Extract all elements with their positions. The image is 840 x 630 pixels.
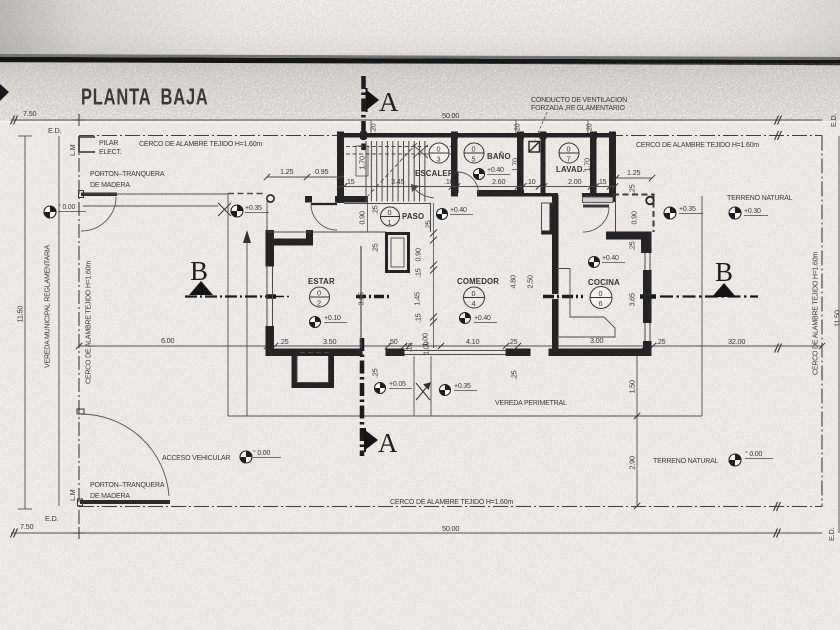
svg-text:1.70: 1.70 [511, 158, 520, 172]
comedor interior dim line [433, 203, 435, 348]
fence right cerco dash-dot [821, 136, 823, 507]
svg-text:.50: .50 [388, 337, 398, 346]
svg-text:4: 4 [472, 299, 476, 308]
cocina south wall [549, 349, 652, 357]
svg-text:+0.05: +0.05 [389, 381, 406, 388]
porch left edge line [266, 196, 268, 232]
estar window left [267, 266, 273, 326]
scan noise top [0, 0, 840, 57]
svg-text:.20: .20 [513, 123, 522, 133]
grade +0.40 comedor [459, 312, 470, 323]
svg-text:.10: .10 [526, 177, 536, 186]
grade +0.05 below estar [374, 382, 385, 393]
svg-text:3.50: 3.50 [323, 337, 337, 346]
svg-text:1.00: 1.00 [421, 333, 430, 347]
svg-text:2.00: 2.00 [568, 177, 582, 186]
svg-text:0: 0 [388, 208, 392, 217]
lavad-cocina door leaf [583, 205, 609, 208]
comedor/cocina wall [552, 195, 559, 294]
paso floor line [344, 203, 430, 205]
svg-text:.25: .25 [424, 220, 433, 230]
stairs up arrow curve [414, 188, 434, 198]
svg-text:CERCO DE ALAMBRE TEJIDO H=1.60: CERCO DE ALAMBRE TEJIDO H=1.60m [813, 252, 820, 375]
svg-text:CERCO DE ALAMBRE TEJIDO H=1.60: CERCO DE ALAMBRE TEJIDO H=1.60m [86, 261, 93, 384]
stairs cross mark [413, 145, 428, 158]
svg-text:0.95: 0.95 [315, 167, 329, 176]
svg-text:.25: .25 [628, 241, 637, 251]
cocina right window up [645, 253, 650, 270]
svg-text:E.D.: E.D. [829, 113, 838, 127]
svg-text:CERCO DE ALAMBRE TEJIDO H=: CERCO DE ALAMBRE TEJIDO H=1.60m [390, 499, 513, 506]
grade +0.35 below comedor [439, 384, 450, 395]
svg-text:.20: .20 [369, 123, 378, 133]
right vertical dimension line (clipped) [838, 136, 840, 533]
porch roof dashed left [228, 193, 266, 195]
svg-text:50.00: 50.00 [442, 524, 459, 533]
estar/comedor partition [360, 246, 362, 348]
svg-text:1.25: 1.25 [280, 167, 294, 176]
svg-text:.25: .25 [656, 337, 666, 346]
cocina right window low [645, 323, 650, 341]
vereda bottom edge [228, 415, 702, 417]
section A top arrow [367, 90, 380, 110]
svg-text:5: 5 [472, 155, 476, 164]
svg-text:+0.35: +0.35 [454, 383, 471, 390]
dim .50 [401, 343, 407, 349]
comedor south window (sliding door) [404, 351, 506, 355]
svg-text:4.10: 4.10 [466, 337, 480, 346]
heater closet below conducto [550, 203, 554, 235]
svg-text:0: 0 [437, 145, 441, 154]
svg-text:VEREDA MUNICIPAL REGLAMENTARIA: VEREDA MUNICIPAL REGLAMENTARIA [45, 244, 52, 368]
grade marker +0.35 at path [231, 205, 243, 217]
banio right wall [517, 137, 524, 195]
estar top wall [266, 239, 308, 246]
svg-text:PILAR: PILAR [99, 140, 118, 147]
band top wall [337, 133, 616, 138]
svg-text:.25: .25 [628, 184, 637, 194]
fence bottom cerco dash-dot [79, 506, 822, 508]
svg-text:+0.40: +0.40 [602, 255, 619, 262]
svg-text:+0.30: +0.30 [744, 208, 761, 215]
svg-text:0: 0 [567, 145, 571, 154]
grade marker 0.00 left top [44, 206, 56, 218]
vereda right edge [701, 196, 703, 416]
svg-text:.25: .25 [508, 337, 518, 346]
svg-text:ACCESO VEHICULAR: ACCESO VEHICULAR [162, 455, 231, 462]
grade +0.10 estar [309, 316, 320, 327]
svg-text:7: 7 [567, 155, 571, 164]
grade marker 0.00 acceso [240, 451, 252, 463]
fence top cerco dash-dot [79, 135, 822, 137]
section A bottom arrow [365, 430, 378, 450]
svg-text:TERRENO NATURAL: TERRENO NATURAL [653, 458, 719, 465]
pilar elect symbol [79, 137, 95, 152]
svg-text:CERCO DE ALAMBRE TEJIDO H=: CERCO DE ALAMBRE TEJIDO H=1.60m [636, 142, 759, 149]
svg-text:3.45: 3.45 [391, 177, 405, 186]
dim .25 left of estar [272, 343, 278, 349]
row escalera-banio-lavad dims [338, 186, 616, 188]
band right wall [609, 133, 616, 202]
right side vertical dim 1.50 / 2.90 [636, 349, 638, 506]
svg-text:2.90: 2.90 [628, 456, 637, 470]
svg-text:1.25: 1.25 [627, 168, 641, 177]
porch column right [646, 197, 654, 205]
svg-text:PLANTA BAJA: PLANTA BAJA [81, 85, 209, 110]
svg-text:.25: .25 [371, 368, 380, 378]
svg-text:FORZADA ,RE GLAMENTARIO: FORZADA ,RE GLAMENTARIO [531, 105, 626, 112]
cross ticks at L.M on dim lines [73, 114, 85, 539]
svg-text:1.70: 1.70 [358, 156, 367, 170]
svg-text:0.90: 0.90 [358, 211, 367, 225]
svg-text:1.70: 1.70 [583, 158, 592, 172]
comedor south wall left block [386, 349, 405, 357]
svg-text:A: A [378, 428, 398, 458]
porch column left [267, 195, 274, 202]
svg-text:E.D.: E.D. [45, 514, 59, 523]
porch entry door leaf [311, 203, 337, 205]
grade marker 0.00 bottom right [729, 454, 741, 466]
shaft right wall [541, 137, 546, 195]
estar left wall upper [266, 239, 275, 267]
svg-text:.15: .15 [414, 268, 423, 278]
svg-text:.15: .15 [345, 177, 355, 186]
paso dim line [367, 196, 369, 232]
estar bay dashes [300, 352, 330, 354]
vereda municipal edge [58, 136, 60, 506]
conducto leader [535, 112, 547, 140]
title PLANTA BAJA [81, 85, 209, 110]
porch roof dashed right [613, 195, 654, 233]
access path lines from top gate [83, 193, 228, 195]
house west upper wall (stairs) [337, 133, 344, 203]
section B left arrow [189, 281, 213, 295]
left vertical dimension line 11.50 [24, 136, 26, 509]
svg-text:° 0.00: ° 0.00 [745, 450, 762, 458]
svg-text:ELECT.: ELECT. [99, 149, 122, 156]
svg-text:3.65: 3.65 [628, 293, 637, 307]
svg-text:PASO: PASO [402, 212, 424, 221]
svg-text:0.90: 0.90 [630, 211, 639, 225]
svg-text:ESTAR: ESTAR [308, 277, 335, 286]
stair landing vertical dim 1.70 [356, 146, 368, 176]
grade +0.40 cocina [588, 256, 599, 267]
bottom dimension line 7.50 + 50.00 [11, 532, 822, 534]
dim .15 1.00 [406, 343, 412, 349]
svg-text:6: 6 [599, 299, 603, 308]
svg-text:.10: .10 [444, 177, 454, 186]
svg-text:B: B [190, 256, 208, 286]
svg-text:.25: .25 [371, 243, 380, 253]
svg-text:32.00: 32.00 [728, 337, 745, 346]
leader line with arrow up [246, 238, 248, 416]
band bottom wall: under conducto [523, 193, 558, 197]
svg-text:TERRENO NATURAL: TERRENO NATURAL [727, 195, 793, 202]
estar bay left wall [292, 356, 298, 388]
estar bay right wall [329, 356, 335, 388]
escalera/banio wall [451, 137, 458, 195]
svg-text:11.50: 11.50 [16, 306, 25, 323]
scan edge artifact left [0, 84, 9, 101]
svg-text:11.50: 11.50 [833, 310, 840, 327]
svg-text:+0.40: +0.40 [450, 207, 467, 214]
svg-text:6.00: 6.00 [161, 336, 175, 345]
svg-text:0.90: 0.90 [414, 248, 423, 262]
svg-text:.25: .25 [371, 205, 380, 215]
svg-text:0: 0 [472, 289, 476, 298]
svg-text:7.50: 7.50 [23, 109, 37, 118]
lavad-cocina door arc [583, 207, 609, 232]
estar NW corner block [266, 230, 275, 246]
cocina NE edge line [615, 197, 617, 233]
lavad door sill [583, 197, 614, 203]
svg-text:.25: .25 [510, 370, 519, 380]
svg-text:.15: .15 [414, 313, 423, 323]
band bottom wall: under banio [477, 190, 524, 197]
step arrow X [416, 383, 430, 400]
svg-text:+0.35: +0.35 [679, 206, 696, 213]
porch entry door arc [311, 204, 337, 230]
grade +0.35 terreno mid [664, 207, 676, 219]
shaft hatched square [529, 142, 540, 153]
closet between paso and comedor [387, 234, 409, 272]
svg-text:2: 2 [317, 299, 321, 308]
scanner top strip [0, 0, 840, 60]
bottom gate swing arc [80, 414, 169, 496]
property line L.M left [78, 136, 80, 533]
estar bay bottom wall [292, 383, 335, 389]
svg-text:E.D.: E.D. [48, 126, 62, 135]
svg-text:.25: .25 [279, 337, 289, 346]
svg-text:CONDUCTO DE VENTILACION: CONDUCTO DE VENTILACION [531, 97, 627, 104]
svg-text:A: A [379, 87, 399, 117]
estar left wall lower [266, 326, 275, 351]
stairs mid rails dashed [346, 146, 451, 148]
lavad right wall [590, 137, 597, 194]
svg-text:L.M: L.M [68, 489, 77, 501]
svg-text:50.00: 50.00 [442, 111, 459, 120]
svg-text:.20: .20 [585, 123, 594, 133]
svg-text:1.50: 1.50 [628, 380, 637, 394]
svg-text:COCINA: COCINA [588, 278, 620, 287]
vereda left edge [227, 194, 229, 416]
paso right edge [430, 203, 432, 232]
estar south wall [266, 349, 363, 357]
svg-text:COMEDOR: COMEDOR [457, 277, 499, 286]
cocina right wall low [643, 341, 652, 356]
svg-text:2.60: 2.60 [492, 177, 506, 186]
mottled strip under band [0, 60, 840, 124]
svg-text:° 0.00: ° 0.00 [58, 203, 75, 211]
section B-B cut line [185, 295, 758, 297]
svg-text:7.50: 7.50 [20, 522, 34, 531]
svg-text:+0.40: +0.40 [474, 315, 491, 322]
svg-text:PORTON–TRANQUERA: PORTON–TRANQUERA [90, 171, 165, 178]
svg-text:0: 0 [317, 289, 321, 298]
svg-text:1: 1 [388, 218, 392, 227]
banio door leaf [457, 172, 459, 193]
lavad south wall [582, 193, 616, 197]
estar bay inner line [297, 356, 329, 383]
scan black band [0, 57, 840, 65]
dim 3.50 estar [385, 343, 391, 349]
svg-text:1.45: 1.45 [413, 292, 422, 306]
svg-text:L.M: L.M [68, 144, 77, 156]
svg-text:0: 0 [472, 145, 476, 154]
svg-text:.15: .15 [405, 343, 414, 353]
grade +0.40 paso [436, 208, 447, 219]
svg-text:3: 3 [437, 155, 441, 164]
X break mark on path [218, 203, 231, 216]
comedor south wall right block [506, 349, 531, 357]
bottom vehicular gate leaf [80, 500, 170, 504]
cocina NE corner wall [606, 232, 649, 240]
svg-text:LAVAD.: LAVAD. [556, 165, 585, 174]
svg-text:DE MADERA: DE MADERA [90, 182, 130, 189]
svg-text:3.65: 3.65 [357, 292, 366, 306]
svg-text:+0.40: +0.40 [487, 167, 504, 174]
porch door wall (paso south) [305, 196, 312, 203]
svg-text:.15: .15 [597, 177, 607, 186]
section B right arrow [712, 283, 736, 297]
break marks on survey lines [11, 116, 18, 125]
svg-text:0: 0 [599, 289, 603, 298]
svg-text:+0.35: +0.35 [245, 205, 262, 212]
top dimension line 7.50 + 50.00 [11, 119, 822, 121]
section A bottom line [360, 338, 365, 456]
top pedestrian gate leaf [81, 193, 117, 197]
section A top line [361, 76, 366, 150]
svg-text:VEREDA PERIMETRAL: VEREDA PERIMETRAL [495, 400, 567, 407]
banio door arc [458, 172, 479, 193]
svg-text:E.D.: E.D. [827, 527, 836, 541]
row 1.25 / 0.95 [267, 176, 344, 178]
paso south line [313, 231, 386, 233]
svg-text:PORTON–TRANQUERA: PORTON–TRANQUERA [90, 482, 165, 489]
top gate swing arc [81, 197, 116, 231]
estar porch slab line [267, 231, 311, 233]
svg-text:2.50: 2.50 [526, 275, 535, 289]
svg-text:° 0.00: ° 0.00 [253, 449, 270, 457]
dimension row y=346 : 6.00 [79, 345, 822, 347]
svg-text:BAÑO: BAÑO [487, 152, 511, 161]
step lines below comedor [413, 356, 415, 416]
svg-text:4.80: 4.80 [509, 275, 518, 289]
svg-text:DE MADERA: DE MADERA [90, 493, 130, 500]
grade marker +0.30 [729, 207, 741, 219]
band top wall blocks [337, 132, 344, 140]
grade +0.40 banio [473, 168, 484, 179]
cocina right wall mid [643, 270, 652, 323]
stairs diagonal dashed [366, 143, 417, 198]
heater closet thin outline [542, 203, 554, 234]
cocina counter [557, 269, 616, 338]
svg-text:+0.10: +0.10 [324, 315, 341, 322]
stairs treads [366, 141, 425, 202]
svg-text:B: B [715, 257, 733, 287]
right 1.25 row [616, 177, 652, 179]
svg-text:CERCO DE ALAMBRE TEJIDO H=: CERCO DE ALAMBRE TEJIDO H=1.60m [139, 141, 262, 148]
